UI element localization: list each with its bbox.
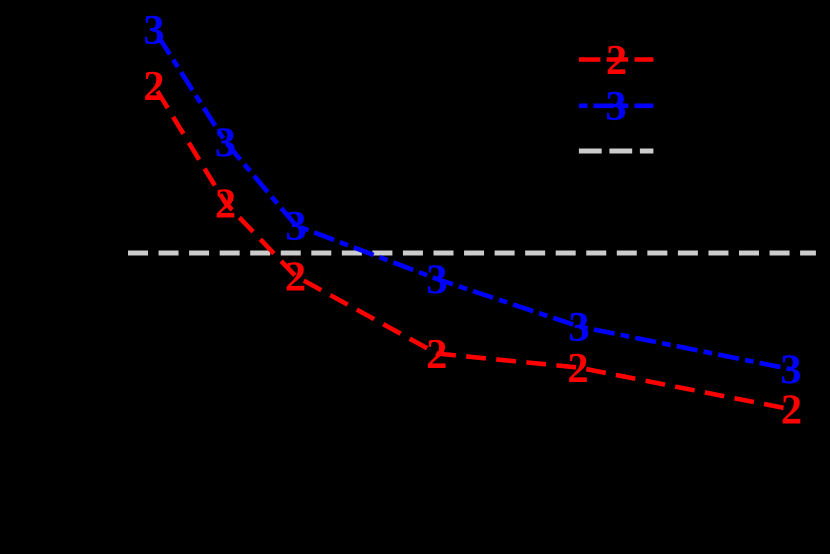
red dashed curve: [154, 86, 792, 410]
svg-text:3: 3: [143, 7, 164, 54]
svg-text:2: 2: [426, 331, 447, 378]
legend red sample: [579, 57, 654, 62]
blue curve markers "3": [143, 7, 801, 394]
svg-text:3: 3: [215, 119, 236, 166]
red curve markers "2": [143, 63, 802, 434]
svg-text:3: 3: [426, 256, 447, 303]
svg-text:2: 2: [285, 253, 306, 300]
svg-text:2: 2: [567, 345, 588, 392]
svg-text:3: 3: [568, 304, 589, 351]
svg-text:2: 2: [781, 387, 802, 434]
svg-text:3: 3: [285, 203, 306, 250]
svg-text:2: 2: [143, 63, 164, 110]
legend gray sample: [579, 149, 654, 154]
svg-text:3: 3: [780, 347, 801, 394]
svg-text:2: 2: [606, 37, 627, 84]
gray dashed threshold line: [128, 251, 816, 256]
legend blue sample: [579, 104, 654, 109]
svg-text:3: 3: [605, 83, 626, 130]
svg-text:2: 2: [215, 180, 236, 227]
blue dash-dot curve: [154, 30, 791, 370]
